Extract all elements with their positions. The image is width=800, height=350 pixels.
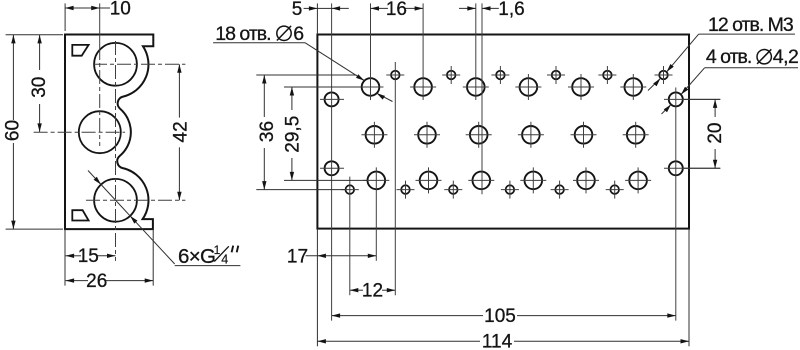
dimension 26 (bottom overall width of left view) [152,229,154,286]
12 holes M3: top row [391,71,400,80]
18 holes dia 6: middle row [366,126,384,144]
dimension 1,6 (top) [459,7,476,9]
svg-text:16: 16 [386,0,407,20]
centerline horizontal top port / extension for dim 42 [93,63,185,65]
top-left slot cutout [72,45,88,56]
dimension 17 (bottom) [306,255,377,257]
long extension/centerlines vertical [331,3,333,320]
dimension 16 (top) [371,7,389,9]
centerline vertical through top and bottom ports [115,41,117,261]
left view plate outline [65,35,153,230]
dimension 15 (bottom, left edge to port centerline) [64,229,66,286]
svg-text:26: 26 [86,271,107,292]
plan view plate rectangle [317,35,689,229]
dimension 5 (top) [304,7,318,9]
centerline horizontal bottom port / extension for dim 42 [86,199,185,201]
port circle bottom G1/4 [94,179,137,222]
dimension 10 (top of left view) [64,3,66,31]
svg-text:114: 114 [482,332,513,350]
dimension 12 (bottom) [350,289,363,291]
port circle top G1/4 [94,43,137,86]
dimension 29,5 (left) [291,87,293,110]
18 holes dia 6: top row [362,78,380,96]
centerline vertical middle port / extension for dim 10 [99,3,101,46]
svg-text:6×G: 6×G [178,245,215,268]
svg-text:105: 105 [484,306,516,327]
svg-text:20: 20 [705,123,726,144]
dimension 60 (left) [6,34,63,36]
svg-text:42: 42 [171,121,192,142]
svg-text:4 отв.: 4 отв. [706,46,751,68]
svg-text:12 отв. М3: 12 отв. М3 [708,14,793,36]
svg-text:17: 17 [287,246,308,267]
bottom-left slot cutout [72,210,88,220]
dimension 36 (left) [263,75,265,117]
dimension 114 (bottom) [317,340,480,342]
svg-text:30: 30 [29,77,50,98]
row extension lines left side [256,74,356,76]
svg-text:15: 15 [78,246,99,267]
4 mounting holes dia 4.2 [325,92,339,106]
dimension 42 (right of left view, top port to bottom port) [178,64,180,117]
svg-text:36: 36 [257,121,278,142]
port circle middle G1/4 [79,111,121,153]
svg-text:12: 12 [362,281,383,302]
svg-text:18 отв.: 18 отв. [215,23,270,45]
svg-text:6: 6 [293,23,304,45]
leader 6xG1/4 through bottom port [88,171,175,265]
svg-text:29,5: 29,5 [282,116,303,153]
svg-text:1: 1 [214,243,221,257]
18 holes dia 6: bottom row [368,172,386,190]
svg-text:1,6: 1,6 [498,0,524,20]
svg-text:10: 10 [110,0,131,20]
centerline horizontal middle port / extension for dim 30 [34,131,125,133]
dimension 105 (bottom) [332,315,483,317]
dimension 30 (left, top edge to middle port) [39,35,41,70]
svg-text:4,2: 4,2 [773,46,799,68]
svg-text:5: 5 [292,0,303,20]
svg-text:60: 60 [2,120,23,141]
12 holes M3: bottom row [346,185,355,194]
svg-text:4: 4 [221,253,228,267]
dimension 20 (right) [684,98,721,100]
